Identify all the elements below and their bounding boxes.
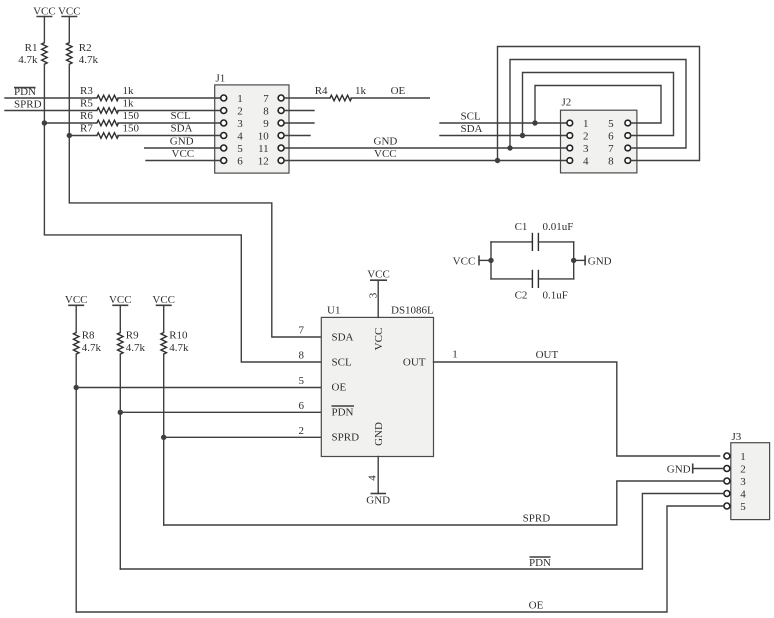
wire VCC stub to J1 pin6 <box>146 148 220 161</box>
J2 pin 4 <box>567 158 573 164</box>
resistor R3 <box>80 85 134 101</box>
junction dot R8 / OE row <box>74 385 79 390</box>
wire VCC bar to R9 <box>119 305 121 332</box>
svg-text:GND: GND <box>588 256 612 268</box>
ground terminal GND (decoupling caps) <box>585 255 612 267</box>
wire R4 to net OE <box>351 85 429 98</box>
svg-text:1k: 1k <box>355 85 367 97</box>
svg-text:OE: OE <box>391 85 406 97</box>
junction dot GND loop <box>507 145 512 150</box>
svg-text:0.01uF: 0.01uF <box>543 221 574 233</box>
wire VCC bar to R8 <box>75 305 77 332</box>
svg-text:4.7k: 4.7k <box>82 342 102 354</box>
svg-text:150: 150 <box>123 123 140 135</box>
svg-text:R6: R6 <box>80 110 93 122</box>
J1 pin 4 <box>221 133 227 139</box>
svg-text:4.7k: 4.7k <box>79 54 99 66</box>
junction dot right cap node <box>571 258 576 263</box>
svg-text:R4: R4 <box>315 85 328 97</box>
wire cap network left side <box>490 242 492 279</box>
wire J1 pin7 to R4 <box>285 97 330 99</box>
svg-text:2: 2 <box>740 464 746 476</box>
svg-text:7: 7 <box>299 325 305 337</box>
power symbol VCC (for R10) <box>152 294 175 306</box>
resistor R6 <box>80 110 140 126</box>
wire OE row to U1 pin5 <box>76 387 321 389</box>
svg-text:OUT: OUT <box>403 357 426 369</box>
svg-text:J2: J2 <box>562 97 572 109</box>
wire stub J1 pin9 <box>285 122 314 124</box>
svg-text:2: 2 <box>237 106 243 118</box>
svg-text:VCC: VCC <box>109 294 132 306</box>
J2 pin 6 <box>625 133 631 139</box>
wire cap network top right <box>538 241 573 243</box>
svg-text:VCC: VCC <box>58 5 81 17</box>
wire R3 to J1 pin1 <box>118 97 220 99</box>
wire R8 down to OE bottom rail <box>75 354 77 612</box>
wire VCC bar to R10 <box>163 305 165 332</box>
svg-text:10: 10 <box>258 131 270 143</box>
J1 pin 8 <box>278 108 284 114</box>
svg-text:11: 11 <box>258 143 269 155</box>
svg-text:7: 7 <box>608 143 614 155</box>
resistor R4 <box>315 85 367 101</box>
svg-text:R3: R3 <box>80 85 93 97</box>
svg-text:SDA: SDA <box>171 123 193 135</box>
svg-text:2: 2 <box>583 131 589 143</box>
svg-text:OE: OE <box>529 600 544 612</box>
svg-text:SCL: SCL <box>171 110 191 122</box>
svg-text:8: 8 <box>299 350 305 362</box>
wire SPRD net R10 to J3 pin3 <box>164 481 724 525</box>
svg-text:GND: GND <box>366 495 390 507</box>
wire R9 down to PDN bottom rail <box>119 354 121 569</box>
svg-text:GND: GND <box>667 464 691 476</box>
svg-text:4: 4 <box>583 156 589 168</box>
svg-text:R9: R9 <box>126 330 139 342</box>
wire cap node to GND terminal <box>574 259 585 261</box>
wire OUT net U1 pin1 to J3 pin1 <box>434 349 720 457</box>
J1 pin 12 <box>278 158 284 164</box>
capacitor C2 <box>515 270 568 302</box>
svg-text:2: 2 <box>299 425 305 437</box>
svg-text:VCC: VCC <box>453 256 476 268</box>
J2 pin 7 <box>625 145 631 151</box>
connector J2 <box>561 97 637 173</box>
svg-text:12: 12 <box>258 156 269 168</box>
svg-text:VCC: VCC <box>172 148 195 160</box>
svg-text:SPRD: SPRD <box>332 432 360 444</box>
svg-text:1: 1 <box>740 451 746 463</box>
svg-text:1: 1 <box>237 93 243 105</box>
wire SDA stub to J2 pin2 <box>440 123 567 136</box>
ground symbol GND (U1 pin 4) <box>366 494 390 507</box>
wire VCC bar to R2 <box>68 17 70 43</box>
svg-text:6: 6 <box>299 400 305 412</box>
wire dot to R7 <box>69 135 97 137</box>
wire dot to R6 <box>44 122 97 124</box>
svg-text:R2: R2 <box>79 42 92 54</box>
svg-text:6: 6 <box>608 131 614 143</box>
svg-text:GND: GND <box>374 136 398 148</box>
svg-text:5: 5 <box>740 501 746 513</box>
power terminal VCC (decoupling caps) <box>453 255 479 267</box>
svg-text:SPRD: SPRD <box>14 99 42 111</box>
resistor R1 <box>18 42 47 66</box>
svg-text:4.7k: 4.7k <box>126 342 146 354</box>
svg-text:7: 7 <box>263 93 269 105</box>
svg-text:DS1086L: DS1086L <box>391 305 434 317</box>
junction dot R9 / PDN row <box>118 410 123 415</box>
J2 pin 5 <box>625 120 631 126</box>
wire PDN net R9 to J3 pin4 <box>120 494 723 570</box>
junction dot VCC loop <box>495 158 500 163</box>
wire cap network bottom left <box>491 278 532 280</box>
svg-text:PDN: PDN <box>529 557 551 569</box>
power symbol VCC (for R9) <box>109 294 132 306</box>
svg-text:R7: R7 <box>80 123 93 135</box>
svg-text:C1: C1 <box>515 221 528 233</box>
svg-text:R1: R1 <box>25 42 38 54</box>
svg-text:PDN: PDN <box>332 407 354 419</box>
resistor R7 <box>80 123 140 139</box>
svg-text:6: 6 <box>237 156 243 168</box>
J3 pin 4 <box>724 491 730 497</box>
junction dot on R1 net / R6 row <box>42 120 47 125</box>
svg-text:5: 5 <box>608 118 614 130</box>
svg-text:SCL: SCL <box>332 357 352 369</box>
svg-text:3: 3 <box>740 476 746 488</box>
svg-text:VCC: VCC <box>65 294 88 306</box>
svg-text:SCL: SCL <box>461 111 481 123</box>
svg-text:R5: R5 <box>80 98 93 110</box>
junction dot R10 / SPRD row <box>161 435 166 440</box>
svg-text:VCC: VCC <box>33 5 56 17</box>
svg-text:J1: J1 <box>216 73 226 85</box>
J3 pin 5 <box>724 503 730 509</box>
svg-text:VCC: VCC <box>152 294 175 306</box>
svg-text:OUT: OUT <box>536 349 559 361</box>
J3 pin 1 <box>724 453 730 459</box>
wire SPRD row to U1 pin2 <box>164 436 322 438</box>
svg-text:4: 4 <box>740 489 746 501</box>
svg-text:SPRD: SPRD <box>523 513 551 525</box>
svg-text:150: 150 <box>123 110 140 122</box>
J2 pin 3 <box>567 145 573 151</box>
wire VCC bar to R1 <box>43 17 45 43</box>
wire cap network top left <box>491 241 532 243</box>
connector J1 <box>215 73 289 174</box>
wire cap network right side <box>573 242 575 279</box>
svg-text:4: 4 <box>237 131 243 143</box>
svg-text:R10: R10 <box>169 330 188 342</box>
junction dot SDA loop <box>520 133 525 138</box>
capacitor C1 <box>515 221 574 251</box>
wire PDN row to R3 <box>5 97 97 99</box>
svg-text:1: 1 <box>452 349 458 361</box>
wire U1 bottom to GND <box>377 457 379 494</box>
junction dot on R2 net / R7 row <box>67 133 72 138</box>
wire R5 to J1 pin2 <box>118 110 220 112</box>
wire cap network bottom right <box>538 278 573 280</box>
wire stub J1 pin10 <box>285 135 310 137</box>
J1 pin 6 <box>221 158 227 164</box>
svg-text:R8: R8 <box>82 330 95 342</box>
resistor R9 <box>118 330 146 355</box>
connector J3 <box>731 431 770 520</box>
J2 pin 8 <box>625 158 631 164</box>
J1 pin 10 <box>278 133 284 139</box>
wire J1 pin12 to J2 pin4, net VCC <box>285 148 567 161</box>
svg-text:1: 1 <box>583 118 589 130</box>
J1 pin 7 <box>278 95 284 101</box>
wire GND terminal to J3 pin2 <box>693 468 724 470</box>
svg-text:U1: U1 <box>327 305 340 317</box>
J1 pin 2 <box>221 108 227 114</box>
svg-text:4: 4 <box>367 475 379 481</box>
wire R2 bottom through rows, SDA net to U1 pin7 <box>69 64 321 337</box>
svg-text:0.1uF: 0.1uF <box>543 290 568 302</box>
svg-text:1k: 1k <box>123 98 135 110</box>
wire VCC to U1 top <box>377 280 379 317</box>
svg-text:SDA: SDA <box>332 332 354 344</box>
J2 pin 2 <box>567 133 573 139</box>
J3 pin 2 <box>724 466 730 472</box>
wire R1 bottom through PDN/SPRD rows, SCL net to U1 pin8 <box>44 64 321 362</box>
svg-text:GND: GND <box>170 136 194 148</box>
svg-text:SDA: SDA <box>461 123 483 135</box>
wire loop J2 pin6 to SDA line <box>523 73 674 136</box>
junction dot left cap node <box>488 258 493 263</box>
svg-text:8: 8 <box>608 156 614 168</box>
op-amp U1 DS1086L <box>321 305 434 457</box>
wire PDN row to U1 pin6 <box>120 411 321 413</box>
J1 pin 1 <box>221 95 227 101</box>
wire J1 pin11 to J2 pin3, net GND <box>285 136 567 149</box>
svg-text:3: 3 <box>237 118 243 130</box>
wire stub J1 pin8 <box>285 110 314 112</box>
svg-text:3: 3 <box>583 143 589 155</box>
wire SPRD row to R5 <box>5 110 97 112</box>
resistor R8 <box>73 330 101 355</box>
wire SCL stub to J2 pin1 <box>440 111 567 124</box>
ground terminal GND (J3 pin 2) <box>667 464 693 476</box>
svg-text:9: 9 <box>263 118 269 130</box>
svg-text:5: 5 <box>237 143 243 155</box>
J3 pin 3 <box>724 478 730 484</box>
svg-text:3: 3 <box>368 292 380 298</box>
J1 pin 3 <box>221 120 227 126</box>
J2 pin 1 <box>567 120 573 126</box>
wire R6 to J1 pin3, net SCL <box>118 110 220 123</box>
power symbol VCC (for R1) <box>33 5 56 17</box>
net label PDN (active low) <box>14 86 36 98</box>
J1 pin 5 <box>221 145 227 151</box>
wire R10 down to SPRD bottom rail <box>163 354 165 525</box>
svg-text:VCC: VCC <box>373 328 385 351</box>
svg-text:4.7k: 4.7k <box>169 342 189 354</box>
svg-text:J3: J3 <box>732 431 742 443</box>
svg-text:4.7k: 4.7k <box>18 54 38 66</box>
power symbol VCC (for R2) <box>58 5 81 17</box>
wire VCC to cap network <box>479 259 491 261</box>
wire GND stub to J1 pin5 <box>145 136 220 149</box>
wire OE net R8 to J3 pin5 <box>76 506 723 612</box>
J1 pin 11 <box>278 145 284 151</box>
svg-text:8: 8 <box>263 106 269 118</box>
power symbol VCC (for R8) <box>65 294 88 306</box>
svg-text:GND: GND <box>373 422 385 446</box>
resistor R10 <box>161 330 189 355</box>
svg-text:VCC: VCC <box>367 269 390 281</box>
wire R7 to J1 pin4, net SDA <box>118 123 220 136</box>
svg-text:VCC: VCC <box>374 148 397 160</box>
junction dot SCL loop <box>532 120 537 125</box>
wire loop J2 pin8 to VCC line <box>498 47 700 161</box>
wire loop J2 pin5 to SCL line <box>535 86 661 124</box>
J1 pin 9 <box>278 120 284 126</box>
svg-text:C2: C2 <box>515 290 528 302</box>
resistor R2 <box>67 42 99 66</box>
svg-text:OE: OE <box>332 382 347 394</box>
power symbol VCC (U1 pin 3) <box>367 269 390 281</box>
svg-text:5: 5 <box>299 375 305 387</box>
resistor R5 <box>80 98 134 114</box>
svg-text:1k: 1k <box>123 85 135 97</box>
wire loop J2 pin7 to GND line <box>510 60 686 149</box>
